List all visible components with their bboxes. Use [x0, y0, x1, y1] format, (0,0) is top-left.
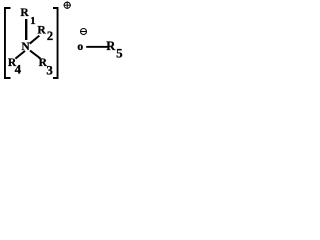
svg-text:5: 5: [116, 45, 123, 60]
svg-text:R: R: [37, 25, 46, 37]
svg-text:1: 1: [30, 15, 35, 27]
wire N-R3 diagonal bond: [30, 51, 40, 59]
plus charge symbol: [64, 1, 71, 9]
wire N-R2 diagonal bond: [30, 36, 40, 44]
wire N-R1 vertical bond: [25, 19, 27, 40]
svg-text:R: R: [20, 7, 29, 19]
svg-text:4: 4: [15, 62, 22, 77]
svg-text:R: R: [106, 39, 116, 53]
wire N-R4 diagonal bond: [15, 51, 25, 59]
svg-text:3: 3: [46, 62, 53, 77]
right bracket: [53, 7, 59, 79]
svg-text:o: o: [77, 41, 83, 53]
svg-text:N: N: [21, 41, 30, 53]
svg-text:2: 2: [47, 29, 53, 43]
minus charge symbol: [80, 29, 87, 35]
wire O-R5 bond: [86, 46, 107, 48]
left bracket: [4, 7, 11, 79]
